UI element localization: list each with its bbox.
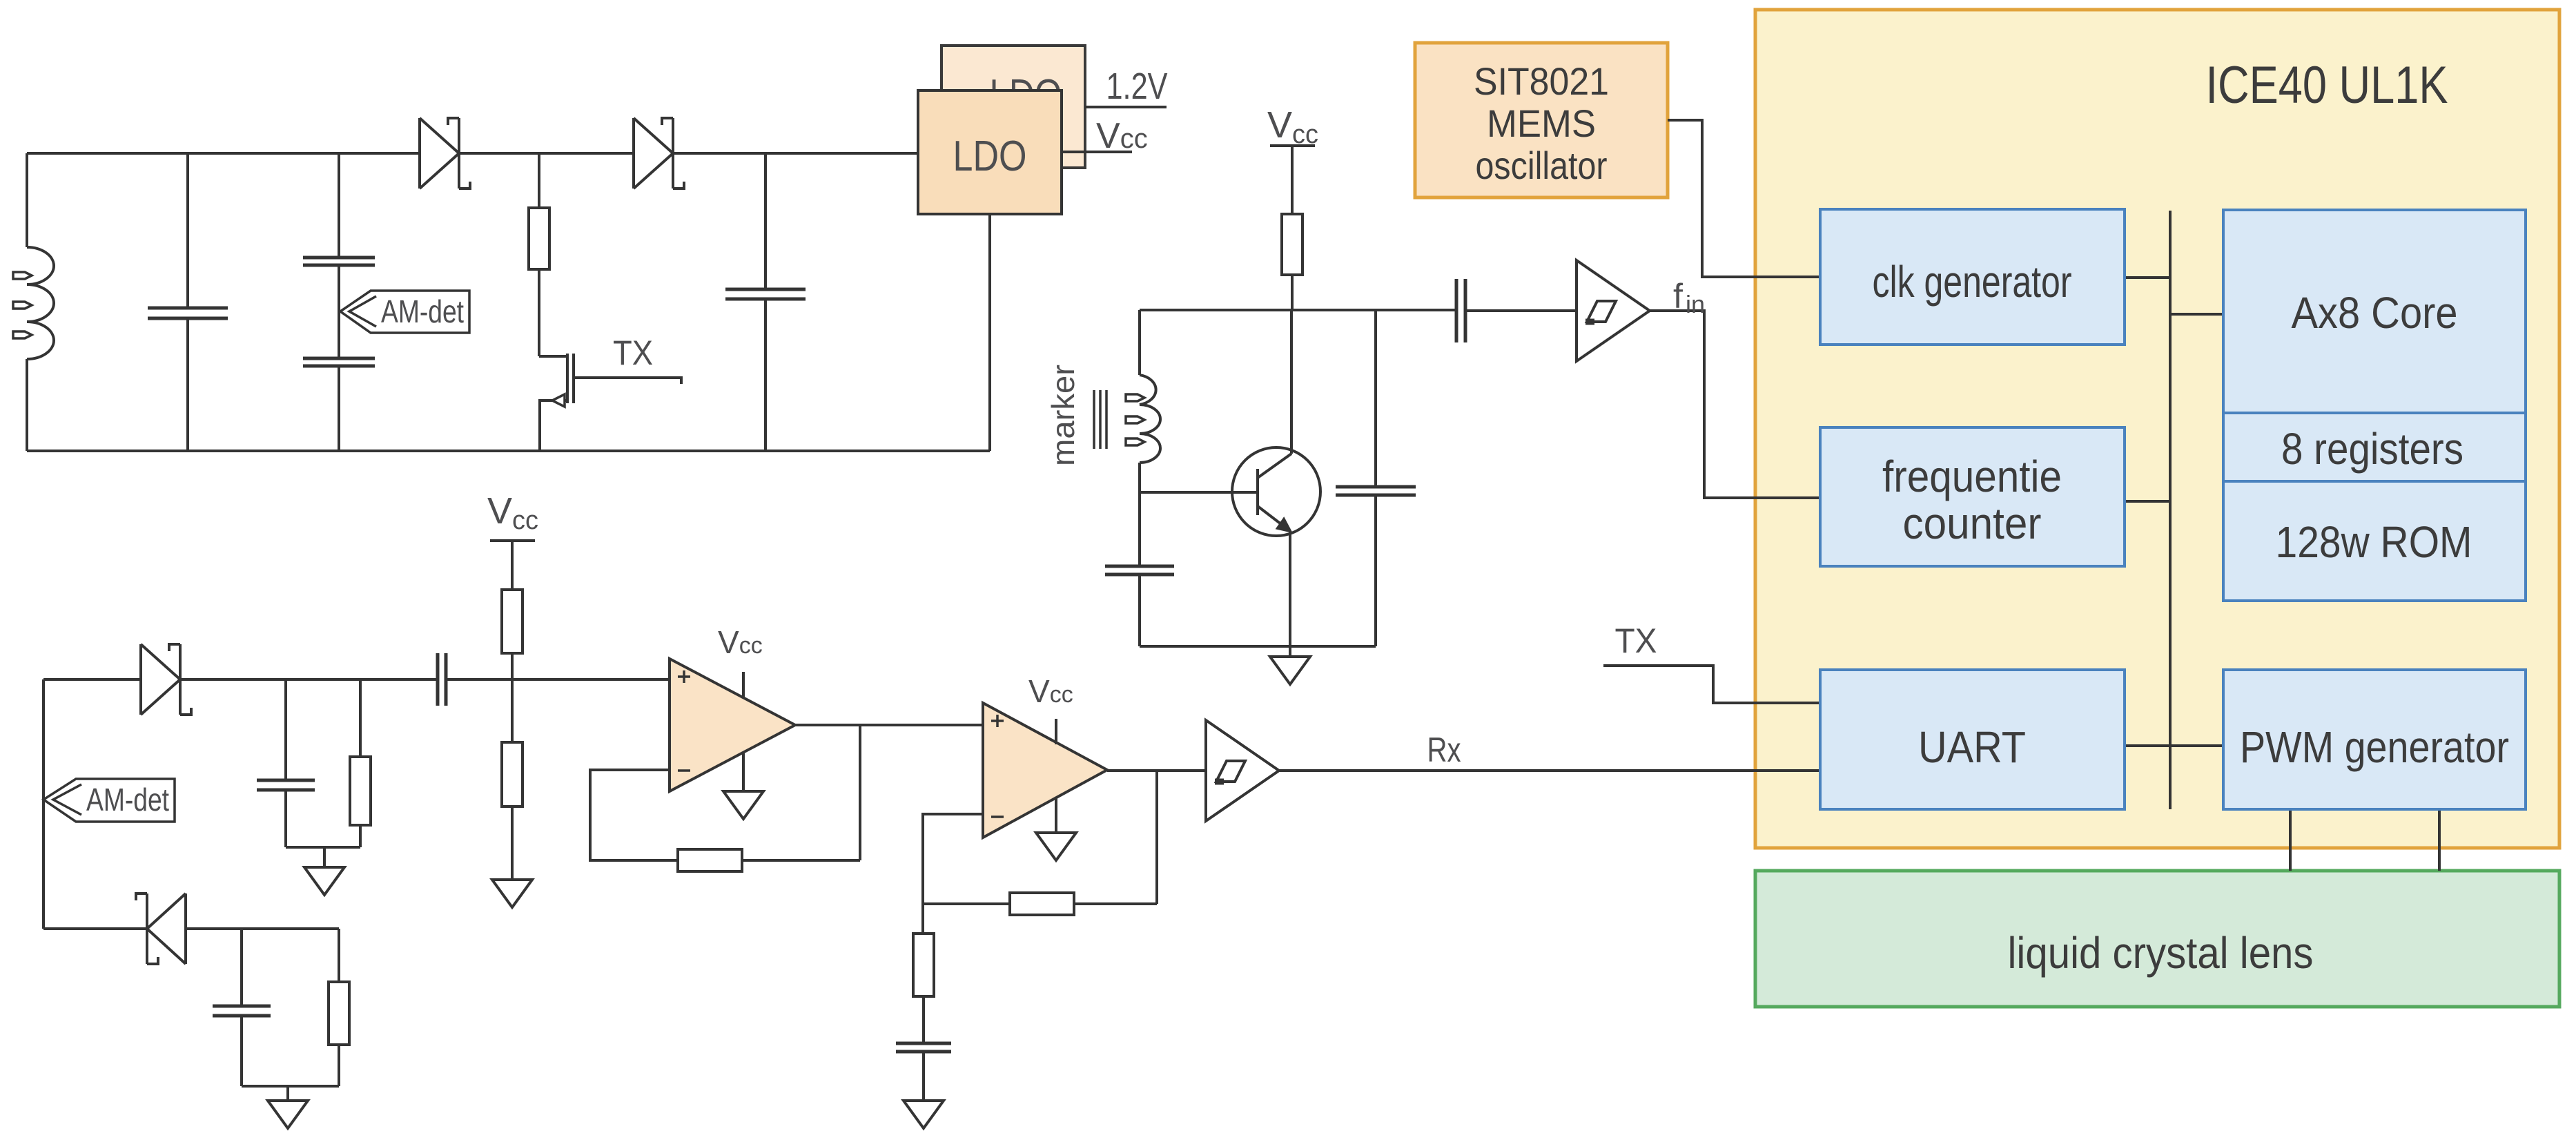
- resistor R9: [913, 934, 934, 996]
- svg-text:ICE40 UL1K: ICE40 UL1K: [2206, 56, 2448, 115]
- capacitor C10: [213, 1005, 271, 1008]
- wire frequentie counter to bus: [2125, 500, 2170, 503]
- LDO block U1: [918, 90, 1062, 214]
- wire 1.2V output: [1085, 106, 1167, 108]
- wire left leg above coil: [26, 153, 28, 247]
- wire LDO ground leg: [988, 214, 991, 451]
- wire RC join 2: [242, 1085, 339, 1088]
- wire cap C4 branch upper: [764, 153, 767, 288]
- wire resistor branch: [538, 153, 540, 208]
- wire tank left upper: [1138, 310, 1141, 375]
- ground (U4): [1036, 833, 1076, 860]
- frequentie counter block: [1820, 427, 2125, 566]
- wire U3 inverting input: [590, 770, 678, 860]
- wire Vcc output: [1062, 151, 1132, 153]
- wire TX to UART: [1603, 666, 1820, 703]
- wire R1 to Q1 drain: [538, 269, 540, 356]
- svg-text:counter: counter: [1903, 499, 2042, 548]
- capacitor C8 (coupling): [436, 653, 440, 706]
- svg-text:128w ROM: 128w ROM: [2276, 517, 2472, 567]
- wire node B rail: [1140, 309, 1455, 311]
- svg-text:liquid crystal lens: liquid crystal lens: [2008, 928, 2314, 978]
- wire Vcc to R4: [511, 541, 514, 590]
- wire feedback riser U3: [859, 725, 861, 860]
- capacitor C7 (coupling): [1455, 279, 1458, 342]
- resistor R1: [529, 208, 549, 269]
- wire Q1 gate: [574, 378, 681, 384]
- capacitor C3: [303, 357, 375, 360]
- antenna coil L1: [27, 247, 54, 359]
- wire internal bus: [2169, 211, 2172, 809]
- svg-text:Rx: Rx: [1427, 731, 1461, 769]
- wire Vcc to R2: [1291, 146, 1294, 214]
- svg-text:clk generator: clk generator: [1873, 257, 2072, 307]
- capacitor C6: [1336, 485, 1416, 489]
- wire rx rail: [180, 678, 436, 681]
- svg-text:f: f: [1673, 277, 1683, 316]
- net flag AM-det (bottom): [43, 779, 175, 822]
- wire U2 out: [1650, 311, 1820, 498]
- resistor R5: [502, 742, 523, 806]
- svg-text:oscillator: oscillator: [1476, 144, 1608, 187]
- wire cap C1 branch lower: [186, 320, 189, 451]
- svg-text:SIT8021: SIT8021: [1474, 59, 1609, 103]
- wire AM branch upper: [338, 153, 340, 256]
- wire rail to R5: [511, 679, 514, 742]
- wire C9 branch upper: [284, 679, 287, 779]
- capacitor C2: [303, 256, 375, 260]
- wire gnd tick U3: [742, 753, 745, 791]
- wire Rx: [1279, 769, 1820, 772]
- wire divider leg: [921, 904, 924, 934]
- diode D1: [420, 118, 459, 189]
- wire RC join: [286, 846, 360, 849]
- net flag AM-det (top): [340, 291, 469, 333]
- wire top rail (node A): [27, 152, 419, 155]
- svg-text:Ax8 Core: Ax8 Core: [2292, 288, 2458, 338]
- wire R3 branch upper: [359, 679, 362, 757]
- UART block: [1820, 670, 2125, 809]
- ground (oscillator): [1270, 657, 1310, 684]
- wire D4 cathode to left leg: [43, 927, 147, 930]
- svg-text:UART: UART: [1918, 722, 2026, 772]
- svg-text:in: in: [1686, 290, 1705, 318]
- marker coil L2: [1140, 375, 1160, 463]
- wire PWM to lens 2: [2438, 809, 2441, 871]
- wire bottom rail: [27, 450, 990, 452]
- marker core bars: [1094, 390, 1106, 449]
- Ax8 Core block: [2223, 210, 2526, 413]
- svg-text:TX: TX: [1615, 621, 1657, 660]
- wire R9 to C11: [922, 996, 925, 1042]
- wire left leg (AM loop): [42, 679, 45, 929]
- wire left leg below coil: [26, 359, 28, 451]
- wire tank left bottom: [1138, 576, 1141, 646]
- wire Vcc tick U3: [742, 672, 745, 697]
- wire tank right upper: [1374, 310, 1377, 485]
- svg-text:TX: TX: [613, 334, 653, 372]
- wire C10 branch upper: [240, 929, 243, 1005]
- schmitt buffer U5: [1206, 720, 1279, 821]
- wire C10 branch lower: [240, 1017, 243, 1086]
- wire UART to PWM generator: [2125, 744, 2223, 747]
- ground (RC filter 2): [268, 1101, 308, 1128]
- wire emitter Q2: [1289, 531, 1291, 657]
- transistor Q1 (MOSFET): [539, 356, 567, 400]
- wire base Q2: [1140, 491, 1258, 494]
- wire rx rail to opamp: [447, 678, 670, 681]
- transistor Q2 (BJT): [1232, 447, 1320, 536]
- coil L1 slug mark 1: [13, 272, 32, 279]
- wire rx rail left: [43, 678, 141, 681]
- coil L1 slug mark 3: [13, 331, 32, 338]
- svg-text:AM-det: AM-det: [381, 293, 464, 329]
- wire R7 to output node: [742, 859, 860, 862]
- wire tank left lower: [1138, 463, 1141, 565]
- op-amp U3: [670, 659, 795, 791]
- coil L2 slug mark 1: [1126, 394, 1144, 401]
- wire gnd tick U4: [1055, 798, 1057, 833]
- svg-text:PWM generator: PWM generator: [2240, 722, 2509, 772]
- LDO block (shadow): [941, 46, 1085, 168]
- wire C7 to U2: [1467, 309, 1577, 312]
- wire R6 branch upper: [338, 929, 340, 982]
- ground (U3): [723, 791, 763, 819]
- liquid crystal lens block (green): [1755, 871, 2559, 1007]
- svg-text:marker: marker: [1045, 365, 1081, 466]
- wire R4 to rail: [511, 653, 514, 679]
- op-amp U4: [983, 703, 1107, 838]
- svg-text:LDO: LDO: [953, 133, 1027, 180]
- wire U4 inverting input: [923, 814, 1010, 904]
- wire R3 branch lower: [359, 825, 362, 847]
- SIT8021 MEMS oscillator block: [1415, 43, 1668, 197]
- coil L2 slug mark 2: [1126, 416, 1144, 423]
- wire cap C4 branch lower: [764, 300, 767, 451]
- diode D2: [634, 118, 673, 189]
- wire top rail D1-D2: [459, 152, 634, 155]
- capacitor C1: [148, 307, 228, 310]
- FPGA block ICE40 UL1K (yellow region): [1755, 10, 2559, 848]
- wire ground stub (RC 2): [286, 1086, 289, 1101]
- wire Vcc tick U4: [1055, 719, 1057, 744]
- resistor R6: [329, 982, 349, 1045]
- clk generator block: [1820, 209, 2125, 345]
- svg-text:8 registers: 8 registers: [2281, 424, 2463, 474]
- resistor R2: [1282, 214, 1302, 275]
- svg-text:MEMS: MEMS: [1487, 102, 1596, 145]
- wire AM branch middle: [338, 267, 340, 357]
- ground (U4 divider): [904, 1101, 944, 1128]
- wire top rail D2-LDO: [673, 152, 918, 155]
- svg-text:frequentie: frequentie: [1882, 452, 2062, 501]
- coil L2 slug mark 3: [1126, 438, 1144, 445]
- svg-text:1.2V: 1.2V: [1106, 66, 1168, 107]
- 8 registers block: [2223, 413, 2526, 481]
- wire cap C1 branch upper: [186, 153, 189, 307]
- wire MEMS to clk generator: [1668, 120, 1820, 277]
- capacitor C11: [896, 1042, 951, 1045]
- wire AM branch lower: [338, 367, 340, 451]
- wire R2 to node B: [1291, 275, 1294, 310]
- coil L1 slug mark 2: [13, 302, 32, 309]
- wire tank right lower: [1374, 496, 1377, 646]
- wire ground stub (RC): [323, 847, 326, 867]
- PWM generator block: [2223, 670, 2526, 809]
- resistor R7 (feedback U3): [678, 849, 742, 871]
- wire bus to Ax8 core: [2170, 313, 2223, 316]
- 128w ROM block: [2223, 481, 2526, 601]
- capacitor C5: [1105, 565, 1174, 568]
- diode D4: [147, 893, 186, 964]
- wire tank bottom rail: [1140, 645, 1376, 648]
- wire PWM to lens 1: [2289, 809, 2292, 871]
- wire collector Q2: [1290, 310, 1293, 454]
- capacitor C9: [257, 779, 315, 782]
- wire clk generator to bus: [2125, 276, 2170, 279]
- wire feedback riser U4: [1155, 771, 1158, 904]
- wire U4 out: [1107, 769, 1206, 772]
- diode D3: [141, 644, 180, 715]
- wire R5 to ground: [511, 806, 514, 880]
- wire R8 to output node: [1074, 902, 1157, 905]
- wire R6 branch lower: [338, 1045, 340, 1086]
- wire C11 to ground: [922, 1053, 925, 1101]
- wire C9 branch lower: [284, 791, 287, 847]
- resistor R8 (feedback U4): [1010, 893, 1074, 915]
- wire D4 anode rail: [186, 927, 339, 930]
- schmitt buffer U2: [1577, 260, 1650, 361]
- wire U3 out to U4: [795, 724, 983, 726]
- resistor R4: [502, 590, 523, 653]
- ground (RC filter): [304, 867, 344, 895]
- ground (divider): [492, 880, 532, 907]
- svg-text:AM-det: AM-det: [86, 782, 169, 818]
- capacitor C4: [725, 288, 806, 291]
- resistor R3: [350, 757, 371, 825]
